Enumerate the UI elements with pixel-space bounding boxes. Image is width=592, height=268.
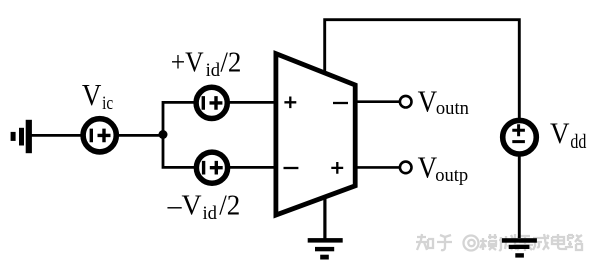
- svg-text:/2: /2: [220, 47, 241, 79]
- svg-text:outp: outp: [435, 165, 468, 186]
- svg-text:outn: outn: [436, 98, 469, 119]
- svg-text:V: V: [82, 77, 102, 112]
- svg-text:dd: dd: [570, 131, 586, 153]
- svg-text:V: V: [418, 83, 438, 118]
- svg-text:–V: –V: [167, 190, 202, 222]
- svg-text:/2: /2: [219, 190, 240, 222]
- svg-text:+V: +V: [171, 47, 204, 79]
- svg-text:id: id: [203, 203, 218, 224]
- svg-text:V: V: [550, 117, 570, 150]
- svg-text:id: id: [206, 60, 221, 81]
- svg-text:ic: ic: [102, 93, 113, 114]
